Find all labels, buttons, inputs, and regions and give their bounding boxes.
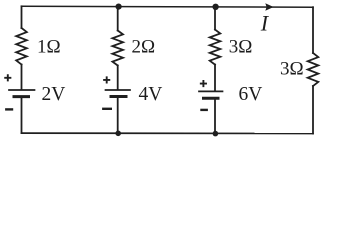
svg-text:6V: 6V xyxy=(239,84,263,105)
svg-text:2V: 2V xyxy=(42,84,66,105)
svg-text:3Ω: 3Ω xyxy=(280,59,304,80)
svg-text:4V: 4V xyxy=(139,84,163,105)
svg-text:2Ω: 2Ω xyxy=(132,36,156,57)
svg-text:I: I xyxy=(260,11,270,36)
svg-text:3Ω: 3Ω xyxy=(229,36,253,57)
svg-text:1Ω: 1Ω xyxy=(37,36,61,57)
